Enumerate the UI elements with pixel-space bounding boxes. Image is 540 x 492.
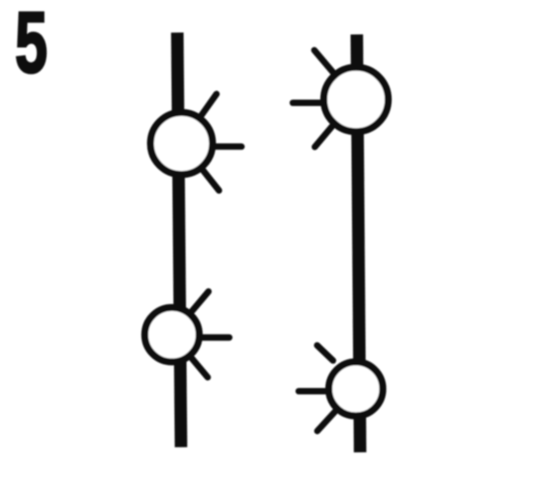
lamp E2 (lower-left lamp symbol, rays to the right) (145, 292, 230, 378)
lamp E4 (lower-right lamp symbol, rays to the left) (299, 345, 383, 431)
svg-text:5: 5 (15, 0, 48, 91)
lamp E3 (upper-right lamp symbol, rays to the left) (293, 50, 388, 147)
wire W1 (left vertical conductor) (177, 33, 181, 448)
wire W2 (right vertical conductor) (357, 34, 360, 452)
lamp E1 (upper-left lamp symbol, rays to the right) (151, 94, 242, 191)
